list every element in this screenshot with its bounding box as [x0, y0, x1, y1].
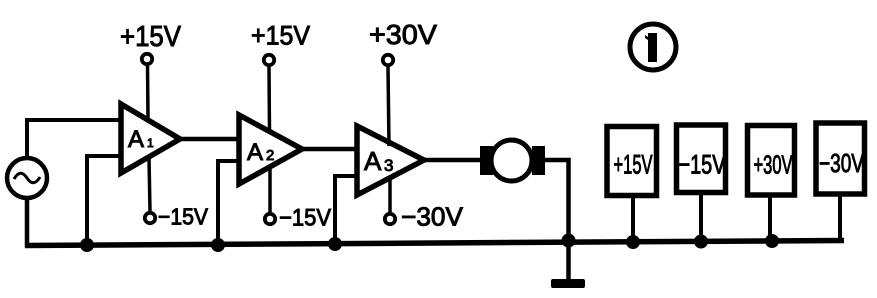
- label -15V A1: [158, 204, 209, 230]
- wire A3 supply rail upper: [388, 67, 389, 146]
- wire A2 supply rail lower: [268, 167, 272, 212]
- wire PS1 to bus: [631, 198, 635, 242]
- junction at bus below PS3: [765, 234, 779, 248]
- terminal +15V A1: [142, 54, 152, 64]
- wire bus to ground: [566, 243, 571, 281]
- junction at bus below A3: [328, 237, 342, 251]
- junction at bus below PS1: [626, 235, 640, 249]
- svg-text:A: A: [364, 146, 382, 176]
- svg-text:2: 2: [266, 147, 274, 164]
- svg-text:+15V: +15V: [120, 21, 182, 53]
- terminal -30V A3: [385, 214, 395, 224]
- wire A1 output to A2: [180, 137, 239, 142]
- terminal +30V A3: [383, 55, 393, 65]
- svg-text:A: A: [128, 126, 144, 153]
- junction at bus below PS2: [694, 235, 708, 249]
- label +30V A3: [369, 19, 437, 50]
- ground: [551, 279, 585, 288]
- power supply PS2 -15V: [677, 125, 726, 193]
- wire bottom bus: [25, 241, 844, 246]
- terminal -15V A2: [265, 214, 275, 224]
- wire PS2 to bus: [699, 195, 703, 242]
- label A1: [128, 126, 154, 153]
- junction at bus below A1: [80, 238, 94, 252]
- svg-text:+30V: +30V: [754, 150, 793, 180]
- svg-text:+15V: +15V: [251, 21, 310, 51]
- wire A1 feedback from bus: [87, 156, 121, 245]
- terminal +15V A2: [264, 55, 274, 65]
- wire A3 output to motor: [424, 158, 483, 163]
- wire motor to bus: [543, 160, 569, 240]
- power supply PS3 +30V: [748, 126, 795, 196]
- svg-text:−15V: −15V: [158, 204, 209, 230]
- wire A1 supply rail upper: [146, 66, 150, 119]
- junction at bus below A2: [211, 238, 225, 252]
- svg-text:3: 3: [384, 156, 393, 175]
- label +15V A1: [120, 21, 182, 53]
- wire source bottom to bus: [27, 197, 30, 246]
- op-amp A2: [239, 115, 302, 184]
- label -15V A2: [279, 205, 331, 232]
- label +15V A2: [251, 21, 310, 51]
- svg-text:−15V: −15V: [679, 150, 726, 180]
- figure number 1: [630, 24, 676, 70]
- wire source top to A1 input: [27, 120, 122, 160]
- svg-text:1: 1: [147, 136, 154, 150]
- wire A2 supply rail upper: [267, 67, 271, 133]
- svg-text:A: A: [247, 139, 263, 166]
- wire A2 output to A3: [302, 147, 357, 152]
- svg-text:−30V: −30V: [401, 202, 464, 232]
- motor M1: [480, 140, 545, 181]
- wire A3 supply rail lower: [388, 178, 392, 212]
- junction at bus below motor: [562, 234, 576, 248]
- svg-text:+30V: +30V: [369, 19, 437, 50]
- op-amp A3: [357, 126, 424, 195]
- power supply PS1 +15V: [607, 127, 657, 196]
- svg-text:+15V: +15V: [614, 150, 653, 180]
- wire A2 feedback from bus: [218, 161, 239, 245]
- wire PS4 to bus: [838, 196, 842, 240]
- terminal -15V A1: [145, 213, 155, 223]
- op-amp A1: [121, 104, 180, 173]
- wire A1 supply rail lower: [149, 158, 150, 211]
- svg-text:−30V: −30V: [819, 148, 864, 178]
- label -30V A3: [401, 202, 464, 232]
- power supply PS4 -30V: [816, 123, 865, 194]
- ac source V1: [7, 158, 47, 198]
- label A2: [247, 139, 274, 166]
- wire A3 feedback from bus: [335, 176, 357, 244]
- svg-text:−15V: −15V: [279, 205, 331, 232]
- wire PS3 to bus: [768, 197, 772, 241]
- label A3: [364, 146, 393, 176]
